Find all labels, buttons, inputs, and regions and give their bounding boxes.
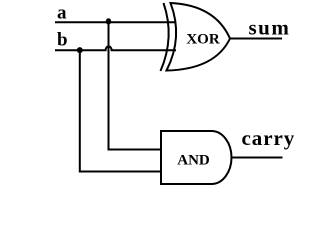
svg-text:XOR: XOR	[186, 32, 220, 48]
wire a (input a horizontal)	[55, 21, 176, 23]
svg-text:a: a	[57, 3, 67, 24]
wire: vertical from node A down to AND upper input	[109, 22, 162, 149]
wire sum output	[230, 38, 283, 40]
XOR gate U1 outer input arc	[161, 3, 169, 71]
svg-text:AND: AND	[177, 152, 210, 168]
AND gate U2 body	[161, 131, 232, 184]
wire: vertical from node B down to AND lower input	[80, 50, 161, 171]
XOR gate U1 body	[167, 3, 231, 71]
node B junction dot	[77, 47, 83, 53]
wire carry output	[232, 157, 283, 159]
wire b (input b horizontal with hop over vertical)	[55, 46, 176, 50]
svg-text:carry: carry	[242, 126, 296, 150]
svg-text:sum: sum	[249, 15, 291, 39]
svg-text:b: b	[57, 30, 68, 51]
node A junction dot	[106, 18, 111, 24]
